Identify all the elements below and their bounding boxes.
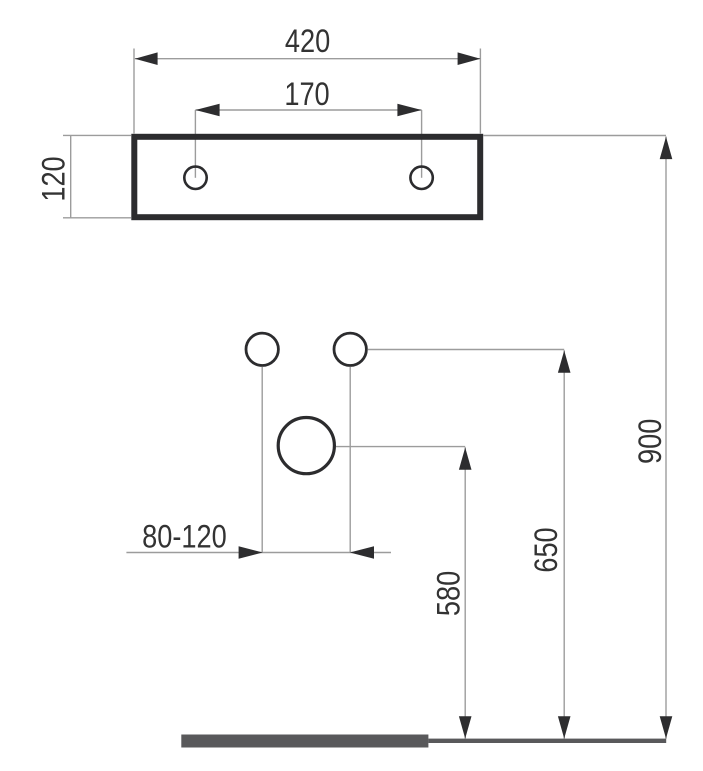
bracket hole left <box>184 167 206 189</box>
leader line from right supply circle down <box>349 367 351 553</box>
svg-text:80-120: 80-120 <box>142 520 227 556</box>
dimension 80-120 arrow right (pointing left) <box>350 546 374 559</box>
dimension 120 extension line top <box>63 134 131 136</box>
dimension 420 extension line right <box>479 49 481 134</box>
dimension 580 arrow bottom <box>459 716 472 738</box>
dimension 650 line <box>563 350 565 739</box>
dimension 170 line <box>195 109 421 111</box>
dimension 170 extension line right (to hole center) <box>421 110 423 178</box>
svg-text:120: 120 <box>37 156 73 201</box>
dimension 120 extension line bottom <box>63 217 131 219</box>
supply pipe circle left <box>246 333 278 365</box>
drain pipe circle <box>278 418 334 474</box>
dimension 580 line <box>464 447 466 738</box>
svg-text:900: 900 <box>633 419 669 464</box>
dimension 650 arrow top <box>558 351 571 373</box>
dimension 80-120 line <box>126 552 391 554</box>
floor thin line <box>428 739 666 743</box>
svg-text:170: 170 <box>284 77 329 113</box>
svg-text:420: 420 <box>285 24 330 60</box>
dimension 120 line <box>70 135 72 217</box>
dimension 900 line <box>665 137 667 739</box>
dimension 420 arrow right <box>458 52 481 65</box>
dimension 420 arrow left <box>135 52 158 65</box>
leader line from left supply circle down <box>261 367 263 553</box>
dimension 580 arrow top <box>459 448 472 470</box>
dimension 170 arrow right <box>397 104 421 117</box>
dimension 650 arrow bottom <box>558 716 571 738</box>
leader line from bracket to 900 dimension <box>483 135 666 137</box>
leader line from right supply circle to 650 dimension <box>368 349 565 351</box>
bracket rectangle outline <box>134 137 480 217</box>
svg-text:580: 580 <box>431 571 467 616</box>
leader line from drain circle to 580 dimension <box>336 446 465 448</box>
dimension 900 arrow top <box>660 137 673 159</box>
bracket hole right <box>410 167 432 189</box>
floor thick bar <box>181 735 428 748</box>
dimension 420 line <box>135 58 481 60</box>
dimension 170 arrow left <box>195 104 219 117</box>
svg-text:650: 650 <box>529 527 565 572</box>
supply pipe circle right <box>334 333 366 365</box>
dimension 900 arrow bottom <box>660 716 673 738</box>
dimension 170 extension line left (to hole center) <box>194 110 196 178</box>
dimension 420 extension line left <box>133 49 135 134</box>
dimension 80-120 arrow left (pointing right) <box>239 546 263 559</box>
